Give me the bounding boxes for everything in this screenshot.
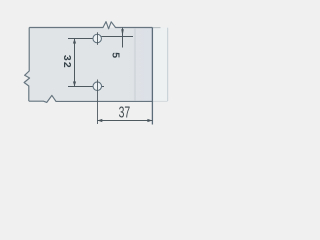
svg-text:32: 32 xyxy=(61,55,73,69)
svg-text:37: 37 xyxy=(119,103,131,121)
svg-text:5: 5 xyxy=(110,52,122,58)
